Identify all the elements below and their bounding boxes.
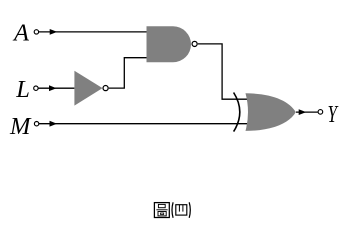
- svg-text:L: L: [15, 76, 30, 103]
- svg-text:A: A: [12, 20, 30, 47]
- svg-text:Y: Y: [328, 101, 339, 128]
- svg-text:M: M: [9, 113, 32, 140]
